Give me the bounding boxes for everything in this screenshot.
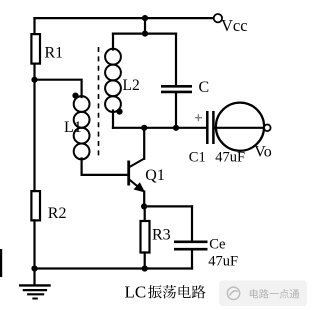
svg-text:Q1: Q1 — [145, 167, 165, 184]
svg-text:R3: R3 — [152, 226, 171, 243]
wire R3 top lead — [144, 206, 146, 220]
wire ground stub — [33, 269, 35, 285]
svg-text:R2: R2 — [48, 205, 67, 222]
node dot R1-R2 — [31, 77, 37, 83]
inductor L1 — [74, 96, 90, 159]
wire base divider to L1 top — [35, 80, 82, 97]
wire L2 bottom lead — [112, 111, 114, 128]
resistor R3 — [141, 221, 150, 253]
wire top rail Vcc — [35, 17, 214, 19]
watermark logo — [227, 287, 239, 299]
node dot emitter — [141, 203, 147, 209]
speaker circle Vo — [216, 103, 264, 151]
transistor Q1 — [129, 158, 145, 190]
wire L1 bottom to base — [82, 159, 128, 175]
capacitor C1 plates — [207, 111, 213, 144]
wire R2 bottom lead — [33, 220, 35, 268]
caption hanzi 振荡电路 — [148, 285, 206, 299]
terminal Vcc — [214, 14, 222, 22]
node dot second rail — [142, 30, 148, 36]
capacitor Ce plates — [174, 242, 208, 249]
plus sign of C1 — [195, 114, 202, 121]
svg-text:R1: R1 — [45, 45, 64, 62]
terminal Vo — [264, 125, 271, 132]
wire R3 bottom lead — [144, 253, 146, 269]
polarity dot L2 — [116, 109, 122, 115]
wire R1 top lead — [33, 18, 35, 34]
node dot C bottom rail — [173, 125, 179, 131]
wire middle rail to C1 — [113, 127, 206, 129]
left edge artifact — [0, 249, 2, 277]
resistor R1 — [31, 34, 40, 64]
capacitor C plates — [161, 86, 192, 92]
node dot collector rail — [141, 125, 147, 131]
node dot ground left — [31, 265, 37, 271]
resistor R2 — [31, 191, 40, 220]
wire bottom ground rail — [35, 267, 193, 269]
svg-text:Vcc: Vcc — [221, 16, 248, 35]
node dot top rail — [142, 15, 148, 21]
ground symbol — [19, 285, 51, 298]
wire C bottom lead — [175, 93, 177, 128]
wire R1 bottom lead — [33, 64, 35, 80]
svg-text:L2: L2 — [123, 77, 140, 94]
wire Ce top lead — [191, 206, 193, 240]
node dot R3 bottom — [142, 265, 148, 271]
inductor L2 — [105, 49, 121, 112]
svg-text:LC: LC — [125, 283, 147, 302]
wire R1-R2 link — [33, 80, 35, 191]
svg-text:C1: C1 — [189, 149, 206, 165]
watermark chip background — [219, 281, 307, 307]
svg-text:47uF: 47uF — [208, 253, 238, 269]
emitter arrowhead Q1 — [134, 182, 146, 192]
svg-text:Vo: Vo — [254, 143, 271, 160]
wire L2 top lead — [112, 34, 114, 50]
wire output line through speaker — [215, 127, 264, 129]
polarity dot L1 — [72, 93, 78, 99]
dashed core line — [98, 47, 100, 156]
wire collector lead — [143, 128, 145, 159]
wire emitter lead — [143, 192, 145, 207]
watermark text 电路一点通 — [250, 289, 299, 298]
wire Ce bottom lead — [191, 250, 193, 268]
svg-text:C: C — [199, 79, 210, 96]
wire second rail L2-C — [113, 32, 176, 34]
svg-text:Ce: Ce — [209, 236, 225, 252]
wire rail link — [144, 18, 146, 33]
wire emitter to R3/Ce rail — [144, 205, 192, 207]
svg-text:47uF: 47uF — [215, 149, 245, 165]
wire C top lead — [175, 34, 177, 86]
